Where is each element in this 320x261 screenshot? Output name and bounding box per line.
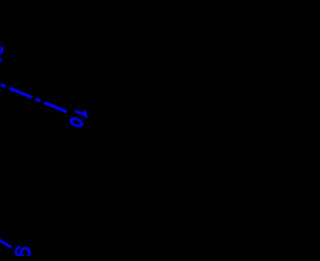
dimension line D1 (dash-dot linetype) [0,74,67,112]
dimension text "6" hook stroke (clipped at bottom edge) [16,247,21,257]
dimension text "10" : digit 1 (rotated) [76,111,86,116]
dimension text "2" top arc (clipped at left edge) [0,47,2,53]
dimension text "10" : digit 0 (rotated) [70,117,83,127]
dimension text "6" loop (clipped at bottom edge) [20,247,31,258]
dimension line D2 (bottom left) [0,236,10,247]
dimension text "2" lower fragment [0,58,1,61]
